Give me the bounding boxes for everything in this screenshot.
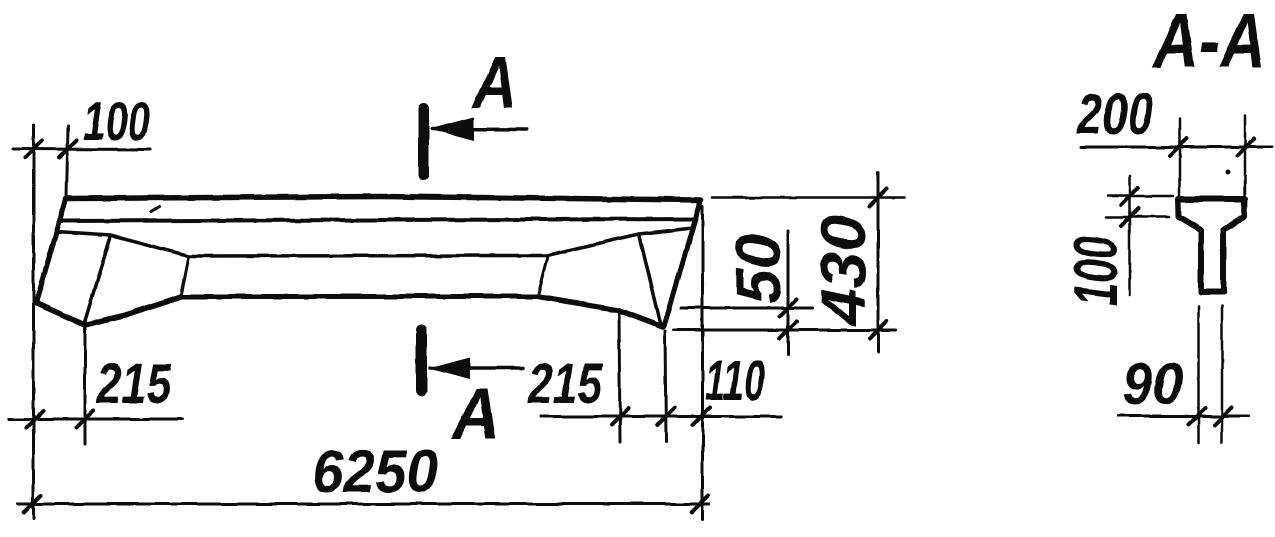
- small mark in flange: [152, 207, 160, 212]
- extension line mid right: [681, 307, 812, 310]
- beam left end edge: [36, 199, 66, 303]
- svg-text:430: 430: [809, 215, 879, 327]
- dimension line 6250: [18, 503, 709, 506]
- tick: [870, 189, 887, 206]
- tick: [612, 408, 629, 425]
- section extension line right: [1244, 116, 1247, 196]
- beam right bottom slope: [538, 297, 663, 328]
- svg-text:A: A: [471, 41, 517, 124]
- section extension line flange top: [1108, 195, 1173, 198]
- dimension line 50: [787, 231, 790, 354]
- tick: [27, 411, 44, 428]
- tick: [693, 408, 710, 425]
- svg-text:A: A: [450, 374, 500, 455]
- extension line right long: [701, 206, 704, 519]
- svg-text:200: 200: [1076, 82, 1153, 147]
- extension line left long: [32, 124, 35, 518]
- section extension line left: [1178, 119, 1181, 196]
- extension line bottom right: [674, 329, 896, 332]
- dimension line 100 section: [1129, 176, 1132, 295]
- section cut mark bottom bar: [416, 330, 427, 391]
- dimension line 200: [1081, 146, 1272, 149]
- svg-text:110: 110: [705, 349, 765, 413]
- dimension line 430: [877, 173, 880, 353]
- extension line 100 right: [67, 126, 69, 197]
- tick: [780, 300, 797, 317]
- beam web bottom line: [181, 294, 538, 299]
- tick: [1170, 139, 1187, 156]
- dimension line 215 left: [9, 418, 182, 421]
- tick: [1215, 408, 1232, 425]
- svg-text:90: 90: [1122, 352, 1183, 417]
- beam right end fold line: [639, 234, 661, 325]
- speck: [1226, 170, 1231, 175]
- tick: [25, 141, 42, 158]
- extension line 215 right b: [665, 331, 666, 442]
- section cut mark top arrow: [432, 127, 527, 131]
- beam left haunch end line: [181, 256, 189, 296]
- beam flange bottom line: [62, 219, 695, 221]
- tick: [60, 141, 77, 158]
- section T profile outline: [1179, 199, 1246, 292]
- tick: [780, 322, 797, 339]
- extension line top right: [712, 196, 904, 199]
- tick: [658, 408, 675, 425]
- svg-text:100: 100: [1062, 236, 1131, 306]
- svg-text:A-A: A-A: [1151, 0, 1266, 84]
- beam right end edge: [664, 203, 700, 326]
- dimension line 90: [1118, 415, 1248, 418]
- svg-text:215: 215: [527, 352, 603, 416]
- tick: [1189, 408, 1206, 425]
- extension line 215 right a: [619, 311, 620, 442]
- tick: [1122, 209, 1139, 226]
- tick: [1238, 139, 1255, 156]
- beam left bottom chamfer: [36, 303, 85, 325]
- dimension line 100: [13, 148, 150, 152]
- section stem extension left: [1197, 306, 1200, 443]
- section extension line flange bottom: [1106, 216, 1169, 219]
- tick: [870, 322, 887, 339]
- dimension line 215-110 right: [541, 415, 781, 418]
- svg-text:100: 100: [83, 90, 150, 152]
- svg-text:215: 215: [96, 352, 172, 416]
- section stem extension right: [1221, 306, 1224, 443]
- extension line 215 left: [84, 326, 87, 444]
- beam web top taper line: [56, 228, 693, 256]
- tick: [692, 496, 709, 513]
- tick: [77, 411, 94, 428]
- beam left end fold line: [84, 235, 111, 324]
- tick: [1122, 188, 1139, 205]
- svg-text:50: 50: [724, 234, 794, 304]
- section cut mark top bar: [418, 108, 429, 175]
- beam right haunch end line: [538, 257, 548, 296]
- beam top edge: [66, 197, 701, 201]
- beam left bottom slope: [85, 297, 181, 326]
- tick: [24, 496, 41, 513]
- svg-text:6250: 6250: [312, 438, 438, 505]
- section cut mark bottom arrow: [430, 366, 523, 370]
